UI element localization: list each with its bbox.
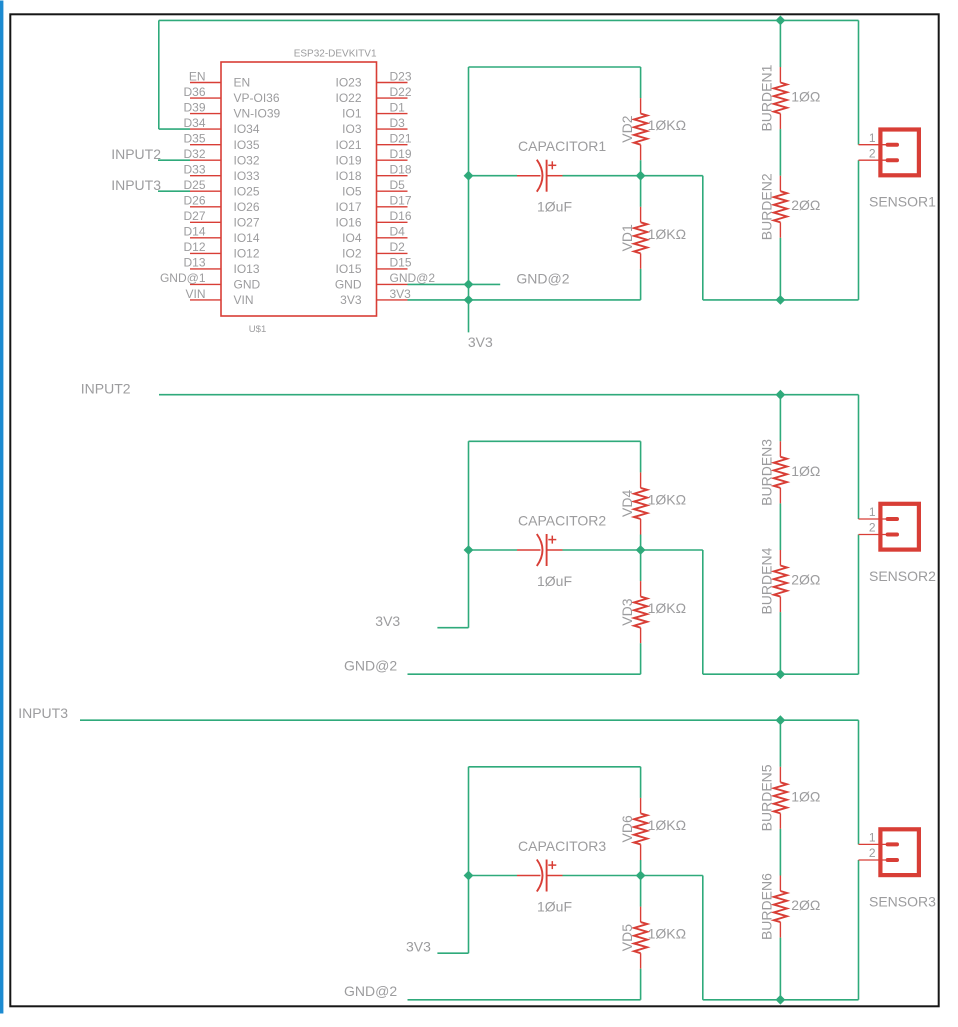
svg-text:IO27: IO27 <box>234 215 260 229</box>
wire cap-box left side circuit 1 <box>468 67 470 176</box>
U$1 right pin IO18 / net D18 <box>335 163 411 183</box>
wire burden bottom <box>779 238 781 300</box>
svg-text:IO12: IO12 <box>234 247 260 261</box>
wire cap node right segment <box>563 875 641 877</box>
U$1 left pin IO25 / net D25 <box>183 178 259 198</box>
wire into D34 pin <box>159 128 190 130</box>
wire 3V3 feed circuit 2 <box>437 627 468 629</box>
resistor BURDEN6 2&#216;&#937; <box>759 873 821 940</box>
svg-text:D36: D36 <box>183 85 205 99</box>
U$1 right pin IO1 / net D1 <box>342 100 407 120</box>
svg-text:1ØΩ: 1ØΩ <box>791 788 820 804</box>
svg-text:1ØuF: 1ØuF <box>537 573 572 589</box>
wire top rail circuit 3 <box>80 719 859 721</box>
svg-text:VD3: VD3 <box>619 598 635 625</box>
resistor VD2 1&#216;K&#937; <box>619 98 686 160</box>
wire bottom rail right <box>703 673 859 675</box>
junction bottom rail / burden <box>776 995 786 1005</box>
connector SENSOR1 pin line 1 <box>859 144 888 146</box>
U$1 right pin IO19 / net D19 <box>335 147 411 167</box>
U$1 right pin IO16 / net D16 <box>335 209 411 229</box>
svg-text:D2: D2 <box>390 240 406 254</box>
wire sensor pin2 riser <box>858 860 860 1000</box>
svg-text:D26: D26 <box>183 194 205 208</box>
wire between burden resistors <box>779 503 781 550</box>
wire sensor pin2 riser <box>858 160 860 300</box>
svg-text:INPUT2: INPUT2 <box>81 381 131 397</box>
wire VD2 bottom to cap node <box>640 160 642 176</box>
svg-text:IO19: IO19 <box>335 153 361 167</box>
U$1 left pin IO26 / net D26 <box>183 194 259 214</box>
svg-text:IO34: IO34 <box>234 122 260 136</box>
svg-text:IO5: IO5 <box>342 184 362 198</box>
svg-text:1ØuF: 1ØuF <box>537 898 572 914</box>
wire GND rail circuit 3 <box>408 999 641 1001</box>
svg-text:VD5: VD5 <box>619 924 635 951</box>
svg-text:IO16: IO16 <box>335 215 361 229</box>
svg-text:CAPACITOR1: CAPACITOR1 <box>518 138 606 154</box>
connector SENSOR3 pin line 2 <box>859 859 888 861</box>
svg-text:GND@2: GND@2 <box>390 271 436 285</box>
wire GND rail circuit 2 <box>408 673 641 675</box>
svg-text:IO26: IO26 <box>234 200 260 214</box>
wire top rail circuit 2 <box>159 394 859 396</box>
wire jog column down <box>702 176 704 300</box>
svg-text:CAPACITOR3: CAPACITOR3 <box>518 838 606 854</box>
svg-text:3V3: 3V3 <box>375 613 400 629</box>
wire burden bottom <box>779 938 781 1000</box>
svg-text:ESP32-DEVKITV1: ESP32-DEVKITV1 <box>294 48 377 59</box>
svg-text:IO17: IO17 <box>335 200 361 214</box>
svg-text:3V3: 3V3 <box>468 334 493 350</box>
svg-text:SENSOR2: SENSOR2 <box>869 568 936 584</box>
svg-text:BURDEN6: BURDEN6 <box>759 873 775 940</box>
svg-text:1ØKΩ: 1ØKΩ <box>648 226 686 242</box>
svg-text:D16: D16 <box>390 209 412 223</box>
svg-text:INPUT3: INPUT3 <box>18 705 68 721</box>
wire jog column down <box>702 550 704 674</box>
wire cap-box top <box>469 440 641 442</box>
wire cap node left segment <box>469 875 518 877</box>
svg-text:D3: D3 <box>390 116 406 130</box>
svg-text:IO18: IO18 <box>335 169 361 183</box>
wire cap node right segment <box>563 549 641 551</box>
wire cap-box right side <box>640 767 642 798</box>
junction cap right node <box>636 871 646 881</box>
wire sensor pin1 riser <box>858 395 860 519</box>
svg-text:GND@2: GND@2 <box>344 658 397 674</box>
resistor VD1 1&#216;K&#937; <box>619 207 686 269</box>
wire VD6 bottom to cap node <box>640 860 642 876</box>
wire between burden resistors <box>779 129 781 176</box>
svg-text:VD6: VD6 <box>619 815 635 842</box>
svg-text:GND@1: GND@1 <box>160 271 206 285</box>
wire cap node right segment <box>563 175 641 177</box>
U$1 right pin IO3 / net D3 <box>342 116 407 136</box>
svg-text:IO22: IO22 <box>335 91 361 105</box>
svg-text:D18: D18 <box>390 163 412 177</box>
U$1 left pin IO12 / net D12 <box>183 240 259 260</box>
junction cap right node <box>636 545 646 555</box>
wire cap node left segment <box>469 549 518 551</box>
wire burden top feed <box>779 395 781 442</box>
svg-text:BURDEN1: BURDEN1 <box>759 64 775 131</box>
junction cap right node <box>636 171 646 181</box>
wire VD1 bottom <box>640 269 642 300</box>
svg-text:IO25: IO25 <box>234 184 260 198</box>
U$1 right pin IO23 / net D23 <box>335 69 411 89</box>
svg-text:D13: D13 <box>183 256 205 270</box>
junction cap left node <box>464 545 474 555</box>
svg-text:VD2: VD2 <box>619 115 635 142</box>
svg-text:GND@2: GND@2 <box>516 271 569 287</box>
svg-text:D21: D21 <box>390 132 412 146</box>
svg-text:D17: D17 <box>390 194 412 208</box>
wire between burden resistors <box>779 829 781 876</box>
wire 3V3 rail from U$1 <box>408 299 641 301</box>
wire cap node to VD5 <box>640 876 642 907</box>
resistor BURDEN2 2&#216;&#937; <box>759 173 821 240</box>
U$1 left pin IO27 / net D27 <box>183 209 259 229</box>
svg-text:GND: GND <box>234 278 261 292</box>
svg-text:D4: D4 <box>390 225 406 239</box>
connector SENSOR2 pin line 2 <box>859 534 888 536</box>
svg-text:1ØKΩ: 1ØKΩ <box>648 600 686 616</box>
svg-text:3V3: 3V3 <box>340 293 362 307</box>
U$1 right pin IO2 / net D2 <box>342 240 407 260</box>
wire cap node left segment <box>469 175 518 177</box>
resistor BURDEN5 1&#216;&#937; <box>759 764 821 831</box>
svg-text:IO4: IO4 <box>342 231 362 245</box>
wire VD5 bottom <box>640 969 642 1000</box>
svg-text:1ØKΩ: 1ØKΩ <box>648 491 686 507</box>
svg-text:1: 1 <box>869 831 876 845</box>
svg-text:IO33: IO33 <box>234 169 260 183</box>
junction top rail / burden <box>776 16 786 26</box>
connector SENSOR1 body <box>880 130 919 176</box>
wire cap-box top <box>469 766 641 768</box>
svg-text:IO23: IO23 <box>335 76 361 90</box>
svg-text:D19: D19 <box>390 147 412 161</box>
resistor BURDEN4 2&#216;&#937; <box>759 547 821 614</box>
U$1 left pin IO33 / net D33 <box>183 163 259 183</box>
U$1 left pin IO35 / net D35 <box>183 132 259 152</box>
svg-text:D14: D14 <box>183 225 205 239</box>
wire riser to D34 <box>158 20 160 129</box>
svg-text:2: 2 <box>869 146 876 160</box>
svg-text:1ØuF: 1ØuF <box>537 199 572 215</box>
junction top rail / burden <box>776 390 786 400</box>
wire INPUT2 to D32 <box>158 159 190 161</box>
U$1 left pin IO14 / net D14 <box>183 225 259 245</box>
svg-text:D34: D34 <box>183 116 205 130</box>
svg-text:BURDEN5: BURDEN5 <box>759 764 775 831</box>
svg-text:2: 2 <box>869 846 876 860</box>
wire VD4 bottom to cap node <box>640 535 642 551</box>
svg-text:D32: D32 <box>183 147 205 161</box>
ESP32 module U$1 body <box>221 62 377 316</box>
wire burden top feed <box>779 720 781 767</box>
svg-text:VP-OI36: VP-OI36 <box>234 91 280 105</box>
svg-text:BURDEN4: BURDEN4 <box>759 547 775 614</box>
svg-text:1ØKΩ: 1ØKΩ <box>648 117 686 133</box>
wire VD3 bottom <box>640 643 642 674</box>
junction top rail / burden <box>776 715 786 725</box>
svg-text:VD1: VD1 <box>619 224 635 251</box>
svg-text:SENSOR3: SENSOR3 <box>869 893 936 909</box>
U$1 right pin 3V3 / net 3V3 <box>340 287 411 307</box>
wire sensor pin1 riser <box>858 20 860 144</box>
svg-text:3V3: 3V3 <box>390 287 412 301</box>
wire cap-box left side circuit 3 <box>468 767 470 953</box>
svg-text:2: 2 <box>869 521 876 535</box>
U$1 left pin GND / net GND@1 <box>160 271 261 291</box>
svg-text:EN: EN <box>234 76 251 90</box>
svg-text:BURDEN2: BURDEN2 <box>759 173 775 240</box>
svg-text:IO32: IO32 <box>234 153 260 167</box>
svg-text:CAPACITOR2: CAPACITOR2 <box>518 512 606 528</box>
U$1 right pin IO21 / net D21 <box>335 132 411 152</box>
wire burden top feed <box>779 20 781 67</box>
svg-text:EN: EN <box>189 69 206 83</box>
svg-text:VIN: VIN <box>185 287 205 301</box>
wire cap-box right side <box>640 67 642 98</box>
wire 3V3 feed circuit 3 <box>437 952 468 954</box>
wire sensor pin2 riser <box>858 535 860 675</box>
connector SENSOR1 pin line 2 <box>859 159 888 161</box>
wire burden bottom <box>779 612 781 674</box>
wire jog column down <box>702 876 704 1000</box>
svg-text:2ØΩ: 2ØΩ <box>791 572 820 588</box>
junction cap left node <box>464 171 474 181</box>
U$1 left pin VN-IO39 / net D39 <box>183 100 280 120</box>
svg-text:GND@2: GND@2 <box>344 983 397 999</box>
junction bottom rail / burden <box>776 295 786 305</box>
svg-text:IO13: IO13 <box>234 262 260 276</box>
blue window edge strip <box>0 1 3 1014</box>
capacitor CAPACITOR1 10uF <box>517 160 563 192</box>
svg-text:D23: D23 <box>390 69 412 83</box>
capacitor CAPACITOR3 10uF <box>517 860 563 892</box>
svg-text:D27: D27 <box>183 209 205 223</box>
U$1 right pin IO5 / net D5 <box>342 178 407 198</box>
svg-text:IO14: IO14 <box>234 231 260 245</box>
U$1 right pin IO4 / net D4 <box>342 225 407 245</box>
svg-text:3V3: 3V3 <box>406 939 431 955</box>
resistor VD4 1&#216;K&#937; <box>619 472 686 534</box>
svg-text:GND: GND <box>335 278 362 292</box>
svg-text:VN-IO39: VN-IO39 <box>234 107 281 121</box>
wire bottom rail right <box>703 299 859 301</box>
wire cap node to VD3 <box>640 550 642 581</box>
svg-text:2ØΩ: 2ØΩ <box>791 197 820 213</box>
junction GND@2 column <box>464 280 474 290</box>
U$1 left pin EN / net EN <box>189 69 250 89</box>
wire bottom rail right <box>703 999 859 1001</box>
wire cap-box right side <box>640 441 642 472</box>
svg-text:2ØΩ: 2ØΩ <box>791 897 820 913</box>
resistor BURDEN1 1&#216;&#937; <box>759 64 821 131</box>
wire 3V3 riser circuit 1 <box>468 176 470 333</box>
connector SENSOR3 pin line 1 <box>859 843 888 845</box>
wire INPUT3 to D25 <box>158 190 190 192</box>
svg-text:D25: D25 <box>183 178 205 192</box>
svg-text:IO15: IO15 <box>335 262 361 276</box>
svg-text:IO1: IO1 <box>342 107 362 121</box>
svg-text:VD4: VD4 <box>619 490 635 517</box>
svg-text:IO21: IO21 <box>335 138 361 152</box>
wire top rail circuit 1 <box>159 19 859 21</box>
wire cap node to jog column <box>641 549 703 551</box>
svg-text:INPUT2: INPUT2 <box>111 146 161 162</box>
svg-text:VIN: VIN <box>234 293 254 307</box>
U$1 right pin GND / net GND@2 <box>335 271 436 291</box>
svg-text:D22: D22 <box>390 85 412 99</box>
U$1 left pin IO34 / net D34 <box>183 116 259 136</box>
svg-text:IO2: IO2 <box>342 247 362 261</box>
connector SENSOR2 pin line 1 <box>859 518 888 520</box>
svg-text:D39: D39 <box>183 100 205 114</box>
U$1 left pin VP-OI36 / net D36 <box>183 85 279 105</box>
svg-text:INPUT3: INPUT3 <box>111 177 161 193</box>
svg-text:IO3: IO3 <box>342 122 362 136</box>
svg-text:D15: D15 <box>390 256 412 270</box>
resistor VD5 1&#216;K&#937; <box>619 907 686 969</box>
svg-text:D35: D35 <box>183 132 205 146</box>
svg-text:D1: D1 <box>390 100 406 114</box>
svg-text:1ØΩ: 1ØΩ <box>791 463 820 479</box>
svg-text:BURDEN3: BURDEN3 <box>759 439 775 506</box>
wire cap-box left side circuit 2 <box>468 441 470 627</box>
connector SENSOR2 body <box>880 504 919 550</box>
wire sensor pin1 riser <box>858 720 860 844</box>
U$1 left pin VIN / net VIN <box>185 287 253 307</box>
U$1 right pin IO22 / net D22 <box>335 85 411 105</box>
svg-text:SENSOR1: SENSOR1 <box>869 194 936 210</box>
junction cap left node <box>464 871 474 881</box>
junction 3V3 rail column <box>464 295 474 305</box>
svg-text:1ØΩ: 1ØΩ <box>791 89 820 105</box>
U$1 right pin IO15 / net D15 <box>335 256 411 276</box>
wire cap node to jog column <box>641 175 703 177</box>
wire GND@2 from U$1 <box>408 283 501 285</box>
capacitor CAPACITOR2 10uF <box>517 534 563 566</box>
svg-text:1: 1 <box>869 505 876 519</box>
svg-text:1ØKΩ: 1ØKΩ <box>648 926 686 942</box>
wire cap node to jog column <box>641 875 703 877</box>
junction bottom rail / burden <box>776 669 786 679</box>
svg-text:D33: D33 <box>183 163 205 177</box>
wire cap node to VD1 <box>640 176 642 207</box>
connector SENSOR3 body <box>880 829 919 875</box>
U$1 right pin IO17 / net D17 <box>335 194 411 214</box>
svg-text:D12: D12 <box>183 240 205 254</box>
svg-text:D5: D5 <box>390 178 406 192</box>
svg-text:1ØKΩ: 1ØKΩ <box>648 817 686 833</box>
svg-text:U$1: U$1 <box>249 324 266 335</box>
U$1 left pin IO13 / net D13 <box>183 256 259 276</box>
svg-text:1: 1 <box>869 131 876 145</box>
resistor VD3 1&#216;K&#937; <box>619 581 686 643</box>
U$1 left pin IO32 / net D32 <box>183 147 259 167</box>
svg-text:IO35: IO35 <box>234 138 260 152</box>
wire cap-box top <box>469 66 641 68</box>
resistor BURDEN3 1&#216;&#937; <box>759 439 821 506</box>
resistor VD6 1&#216;K&#937; <box>619 798 686 860</box>
